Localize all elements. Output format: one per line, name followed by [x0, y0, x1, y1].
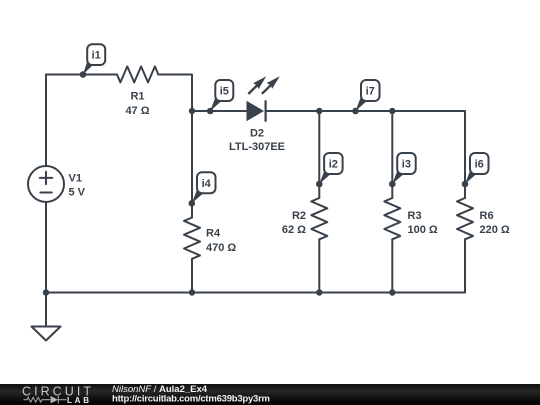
- svg-text:5 V: 5 V: [69, 187, 86, 199]
- label V1: [69, 173, 86, 199]
- resistor R6: [457, 198, 473, 239]
- wire R3 branch top: [391, 111, 393, 198]
- wire left rail upper: [45, 75, 47, 167]
- current probe i2: [316, 153, 343, 187]
- wire LED row left: [192, 110, 247, 112]
- svg-text:LAB: LAB: [67, 396, 91, 405]
- svg-text:D2: D2: [250, 128, 264, 140]
- wire R4 branch bottom: [191, 259, 193, 293]
- wire R6 branch bottom: [464, 239, 466, 292]
- junction node ground: [43, 289, 49, 295]
- resistor R1: [117, 66, 158, 82]
- svg-text:LTL-307EE: LTL-307EE: [229, 141, 285, 153]
- label R1: [125, 91, 149, 118]
- LED arrow 1: [248, 76, 266, 94]
- svg-text:R3: R3: [408, 210, 422, 222]
- wire R3 branch bottom: [391, 239, 393, 292]
- resistor R3: [384, 198, 400, 239]
- wire LED row right: [267, 110, 466, 112]
- svg-text:R6: R6: [480, 210, 494, 222]
- wire bottom rail: [46, 292, 465, 294]
- svg-text:i2: i2: [329, 159, 338, 171]
- voltage source V1: [28, 166, 64, 202]
- svg-text:100 Ω: 100 Ω: [408, 224, 438, 236]
- svg-text:R2: R2: [292, 210, 306, 222]
- label R4: [206, 228, 236, 255]
- current probe i6: [462, 153, 489, 187]
- svg-text:R4: R4: [206, 228, 221, 240]
- LED D2 cathode bar: [265, 100, 267, 121]
- junction node R2 top: [316, 108, 322, 114]
- LED arrow 2: [262, 76, 280, 94]
- junction node R4 bottom: [189, 289, 195, 295]
- wire R4 branch top: [191, 111, 193, 218]
- junction node R3 top: [389, 108, 395, 114]
- junction node R2 bottom: [316, 289, 322, 295]
- current probe i1: [80, 44, 106, 78]
- junction node below R1: [189, 108, 195, 114]
- svg-text:i7: i7: [366, 86, 375, 98]
- svg-text:i6: i6: [475, 159, 484, 171]
- svg-text:470 Ω: 470 Ω: [206, 242, 236, 254]
- svg-text:i4: i4: [202, 178, 212, 190]
- current probe i4: [189, 172, 216, 206]
- resistor R2: [311, 198, 327, 239]
- svg-text:62 Ω: 62 Ω: [282, 224, 306, 236]
- label D2: [229, 128, 285, 153]
- svg-text:220 Ω: 220 Ω: [480, 224, 510, 236]
- svg-text:i3: i3: [402, 159, 411, 171]
- footer logo zigzag+diode: [24, 396, 67, 404]
- footer bar: [0, 384, 540, 405]
- ground: [32, 293, 61, 341]
- wire R1 to corner: [158, 75, 192, 112]
- svg-text:i1: i1: [92, 50, 101, 62]
- current probe i7: [352, 80, 379, 114]
- resistor R4: [184, 218, 200, 259]
- svg-text:47 Ω: 47 Ω: [125, 105, 149, 117]
- svg-text:i5: i5: [220, 86, 229, 98]
- footer logo diode triangle: [51, 396, 58, 403]
- svg-text:http://circuitlab.com/ctm639b3: http://circuitlab.com/ctm639b3py3rm: [112, 393, 270, 404]
- junction node R3 bottom: [389, 289, 395, 295]
- svg-text:V1: V1: [69, 173, 82, 185]
- wire R2 branch bottom: [318, 239, 320, 292]
- wire left rail lower: [45, 202, 47, 293]
- label R3: [408, 210, 438, 236]
- label R6: [480, 210, 510, 236]
- LED D2: [247, 101, 265, 121]
- wire R6 branch top: [464, 111, 466, 198]
- current probe i5: [207, 80, 233, 114]
- wire top-left horizontal: [46, 74, 117, 76]
- current probe i3: [389, 153, 416, 187]
- label R2: [282, 210, 306, 236]
- wire R2 branch top: [318, 111, 320, 198]
- svg-text:R1: R1: [130, 91, 144, 103]
